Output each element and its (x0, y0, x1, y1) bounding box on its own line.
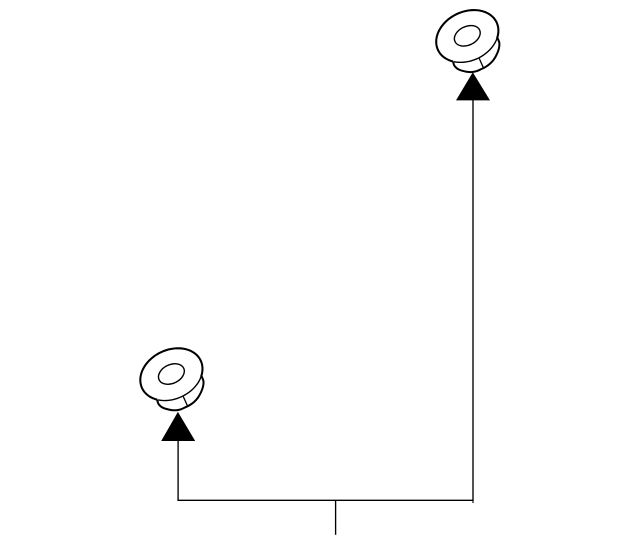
arrowhead (lower left, pointing up at grommet) (161, 412, 195, 441)
grommet (upper right) (436, 10, 499, 72)
leader line end tick (right) (472, 500, 474, 503)
horizontal connector line (177, 499, 473, 501)
arrowhead (upper right, pointing up at grommet) (456, 72, 490, 100)
leader line (right vertical) (472, 100, 474, 500)
grommet (lower left) (140, 348, 203, 410)
bottom center stub line (335, 500, 337, 535)
leader line (left vertical) (177, 441, 179, 501)
